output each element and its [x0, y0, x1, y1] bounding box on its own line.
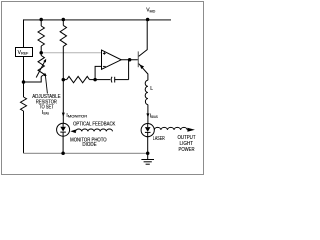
svg-text:VREF: VREF: [18, 50, 29, 56]
svg-text:VMD: VMD: [146, 8, 155, 14]
svg-text:OUTPUT: OUTPUT: [178, 135, 196, 141]
svg-text:POWER: POWER: [179, 147, 195, 153]
svg-text:IMONITOR: IMONITOR: [66, 113, 87, 119]
svg-text:LASER: LASER: [153, 136, 165, 142]
svg-text:IBIAS: IBIAS: [150, 113, 158, 119]
svg-text:L: L: [150, 86, 153, 92]
svg-text:OPTICAL FEEDBACK: OPTICAL FEEDBACK: [73, 121, 116, 127]
svg-text:DIODE: DIODE: [82, 142, 97, 148]
svg-text:IBIAS: IBIAS: [42, 110, 49, 116]
